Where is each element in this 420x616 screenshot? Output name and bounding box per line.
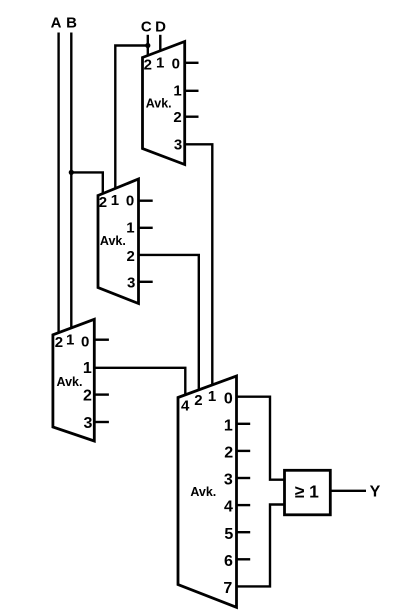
wire U3 output 1 to U4 pin 4 (94, 368, 185, 396)
U2 body (98, 179, 139, 304)
U4 output 1 stub (237, 423, 251, 425)
wire U5 output to Y (330, 490, 366, 492)
svg-text:1: 1 (156, 55, 164, 72)
wire B branch to U2 pin 2 (71, 172, 103, 194)
U4 output 2 stub (237, 450, 251, 452)
wire C to U1 pin 2 (147, 35, 149, 56)
svg-text:2: 2 (127, 248, 135, 265)
U1 output 0 stub (185, 62, 199, 64)
svg-text:D: D (155, 19, 166, 36)
decoder U3 (left Avk.) (53, 319, 94, 441)
svg-text:C: C (141, 19, 152, 36)
wire U1 output 3 to U4 pin 1 (185, 144, 213, 385)
svg-text:1: 1 (224, 417, 233, 434)
svg-text:3: 3 (127, 275, 135, 292)
wire U2 output 2 to U4 pin 2 (139, 255, 199, 391)
wire A to U3 pin 2 (57, 33, 59, 334)
svg-text:0: 0 (126, 193, 134, 210)
wire U4 output 7 to OR gate input 2 (237, 505, 284, 587)
U3 output 3 stub (94, 421, 109, 423)
U4 output 4 stub (237, 504, 251, 506)
svg-text:1: 1 (126, 219, 134, 236)
wire B to U3 pin 1 (70, 33, 72, 329)
OR gate U5 (285, 470, 331, 515)
svg-text:1: 1 (208, 388, 216, 405)
U2 output 3 stub (139, 281, 153, 283)
junction on wire B (69, 170, 74, 175)
junction on wire C (145, 43, 150, 48)
U1 output 2 stub (185, 115, 199, 117)
svg-text:0: 0 (172, 56, 180, 73)
svg-text:2: 2 (144, 57, 152, 74)
svg-text:6: 6 (224, 553, 233, 570)
svg-text:1: 1 (173, 83, 181, 100)
svg-text:5: 5 (224, 526, 233, 543)
svg-text:1: 1 (83, 360, 92, 377)
U4 output 5 stub (237, 531, 251, 533)
svg-text:2: 2 (83, 388, 92, 405)
U4 output 3 stub (237, 477, 251, 479)
U2 output 0 stub (139, 199, 153, 201)
svg-text:2: 2 (55, 334, 63, 351)
svg-text:0: 0 (224, 390, 233, 407)
U3 output 2 stub (94, 393, 109, 395)
U5 body (285, 470, 331, 515)
svg-text:4: 4 (181, 397, 190, 414)
svg-text:Avk.: Avk. (100, 234, 126, 248)
svg-text:Y: Y (370, 484, 381, 501)
U1 body (143, 42, 185, 165)
svg-text:Avk.: Avk. (57, 375, 83, 389)
wire D to U1 pin 1 (159, 35, 161, 52)
U4 output 6 stub (237, 558, 251, 560)
svg-text:B: B (66, 15, 77, 32)
decoder U1 (top Avk.) (143, 42, 185, 165)
svg-text:3: 3 (174, 137, 182, 154)
svg-text:≥ 1: ≥ 1 (295, 481, 319, 501)
U1 output 1 stub (185, 90, 199, 92)
svg-text:3: 3 (224, 472, 233, 489)
decoder U4 (large Avk.) (178, 376, 237, 607)
svg-text:2: 2 (173, 109, 181, 126)
svg-text:2: 2 (224, 445, 233, 462)
U4 body (178, 376, 237, 607)
svg-text:Avk.: Avk. (190, 485, 216, 499)
decoder U2 (middle Avk.) (98, 179, 139, 304)
svg-text:7: 7 (223, 580, 232, 597)
svg-text:Avk.: Avk. (146, 96, 172, 110)
svg-text:3: 3 (84, 415, 93, 432)
U3 body (53, 319, 94, 441)
wire U4 output 0 to OR gate input 1 (237, 397, 284, 480)
svg-text:2: 2 (194, 392, 202, 409)
svg-text:0: 0 (81, 333, 89, 350)
svg-text:4: 4 (224, 499, 233, 516)
svg-text:1: 1 (66, 332, 74, 349)
U3 output 0 stub (94, 339, 109, 341)
U2 output 1 stub (139, 227, 153, 229)
svg-text:2: 2 (99, 194, 107, 211)
wire C branch to U2 pin 1 (115, 46, 148, 190)
svg-text:A: A (51, 15, 62, 32)
svg-text:1: 1 (111, 192, 119, 209)
